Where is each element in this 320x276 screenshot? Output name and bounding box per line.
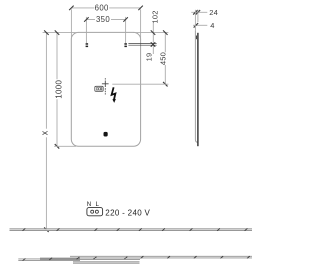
extension line mirror top, left side [43,32,79,34]
touch sensor dot [104,132,108,137]
extension line power point to 450 dim [112,83,168,85]
tick cross at bracket level [151,42,156,47]
svg-text:220 - 240 V: 220 - 240 V [105,208,150,217]
svg-text:102: 102 [150,10,159,23]
svg-text:x: x [40,130,50,135]
svg-text:19: 19 [144,53,153,62]
tick 350 right [123,17,128,22]
lightning bolt power symbol [112,87,116,100]
svg-text:450: 450 [158,52,167,65]
side view mirror front face [195,30,197,142]
side view back panel [197,33,199,146]
dimension line 1000 (vertical) [56,33,58,79]
dimension line 350 [86,19,95,21]
side view glass edge dash [195,36,197,40]
extension line 600 left [70,9,72,39]
connector box [87,208,103,216]
extension line 350 left [85,17,87,43]
tick 1000 bottom [55,144,60,149]
wall bar 2 strip left [18,258,80,260]
tick 24 right [196,10,201,15]
mirror front view outline [71,32,140,146]
connector terminal circles [91,210,94,213]
dimension line X (vertical) [45,33,47,129]
bracket right mounting dots [124,43,127,45]
dimension line 600 [71,7,94,9]
wall bar 2 lower stub [73,261,140,263]
svg-text:600: 600 [95,4,109,13]
extension line mirror bottom, left side [54,145,76,147]
wall bar 2 strip middle [40,257,140,259]
tick 450 bottom [163,82,168,87]
tick 1000 top [55,30,60,34]
side view 24 dim line [191,11,207,13]
bar 1 tick marks [23,228,248,230]
tick 24 left [193,10,198,15]
wall line upper (floor reference bar 1) [10,228,253,230]
tick X bottom [44,227,49,232]
power connection crosshair [102,83,109,85]
bracket leader double line [128,43,156,45]
bracket left mounting dots [86,43,89,45]
svg-text:24: 24 [209,8,218,17]
svg-text:1000: 1000 [54,79,63,98]
bar 2 tick marks [23,256,250,261]
wall bar 2 strip upper right [70,255,252,257]
svg-text:350: 350 [96,15,110,24]
dimension line 450 (vertical) [164,33,166,52]
tick 600 right [138,6,143,10]
tick 4 [194,23,199,28]
extension line mirror top, right side [133,32,168,34]
extension line 350 right [125,17,127,43]
tick 350 left [84,17,89,22]
side view extension lines [194,10,196,30]
dimension line 102/19 (vertical, right of mirror) [152,22,154,54]
tick 450 top [163,30,168,34]
digital clock display box 88 [95,86,103,91]
tick 600 left [69,6,74,10]
side view 4 dim line [193,24,207,26]
svg-text:L: L [95,201,99,208]
svg-text:N: N [87,201,91,208]
extension line 600 right [140,9,142,39]
tick 102 top [151,30,156,34]
tick X top [44,30,49,34]
svg-text:4: 4 [210,21,214,30]
